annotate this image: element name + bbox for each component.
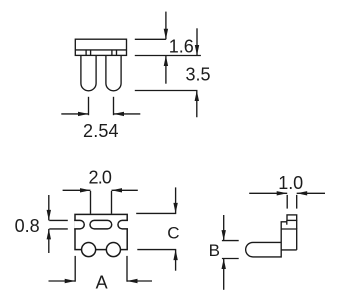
svg-text:1.6: 1.6 <box>169 36 194 56</box>
svg-text:C: C <box>167 223 179 242</box>
svg-text:3.5: 3.5 <box>185 65 210 85</box>
svg-text:2.54: 2.54 <box>83 121 119 141</box>
svg-text:2.0: 2.0 <box>88 168 112 188</box>
svg-text:B: B <box>209 241 220 260</box>
svg-text:A: A <box>96 273 108 293</box>
svg-text:0.8: 0.8 <box>15 216 40 236</box>
svg-text:1.0: 1.0 <box>278 173 303 193</box>
